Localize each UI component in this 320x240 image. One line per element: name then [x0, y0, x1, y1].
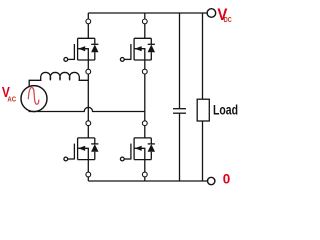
svg-text:AC: AC — [7, 96, 16, 103]
svg-text:Load: Load — [213, 102, 238, 118]
svg-text:0: 0 — [223, 172, 231, 187]
svg-text:DC: DC — [224, 17, 232, 24]
